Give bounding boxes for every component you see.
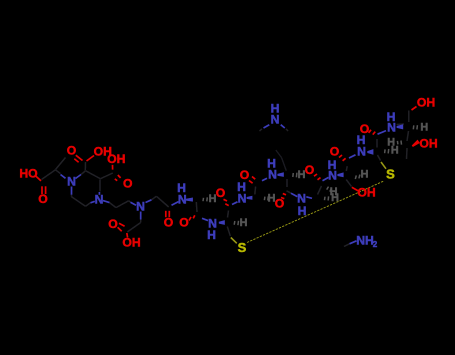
svg-text:N: N (67, 175, 76, 189)
svg-text:N: N (268, 168, 277, 182)
svg-text:OH: OH (107, 152, 125, 166)
svg-text:O: O (330, 145, 339, 159)
svg-text:S: S (386, 167, 395, 182)
svg-text:N: N (238, 191, 247, 205)
svg-text:OH: OH (417, 96, 435, 110)
svg-text:O: O (164, 215, 173, 229)
svg-text:N: N (357, 145, 366, 159)
svg-text:H: H (298, 204, 307, 218)
svg-text:N: N (387, 121, 396, 135)
svg-text:H: H (391, 144, 399, 156)
svg-text:N: N (136, 200, 145, 214)
svg-text:H: H (209, 193, 217, 205)
svg-text:H: H (331, 192, 339, 204)
svg-text:O: O (275, 197, 284, 211)
svg-text:O: O (305, 163, 314, 177)
svg-text:H: H (298, 169, 306, 181)
svg-text:OH: OH (419, 137, 437, 151)
svg-text:H: H (207, 228, 216, 242)
svg-text:H: H (420, 121, 428, 133)
svg-text:H: H (268, 193, 276, 205)
svg-text:O: O (123, 176, 132, 190)
svg-text:OH: OH (122, 236, 140, 250)
svg-text:O: O (179, 215, 188, 229)
svg-text:H: H (361, 169, 369, 181)
svg-text:S: S (238, 240, 247, 255)
svg-text:NH: NH (356, 234, 374, 248)
svg-text:O: O (108, 217, 117, 231)
svg-text:N: N (178, 192, 187, 206)
svg-text:N: N (95, 193, 104, 207)
svg-text:O: O (216, 186, 225, 200)
svg-text:N: N (271, 113, 280, 127)
svg-text:2: 2 (373, 240, 378, 249)
svg-text:O: O (38, 192, 47, 206)
svg-text:H: H (240, 217, 248, 229)
svg-text:O: O (67, 144, 76, 158)
svg-text:OH: OH (357, 186, 375, 200)
svg-text:N: N (328, 169, 337, 183)
svg-text:HO: HO (19, 166, 37, 180)
